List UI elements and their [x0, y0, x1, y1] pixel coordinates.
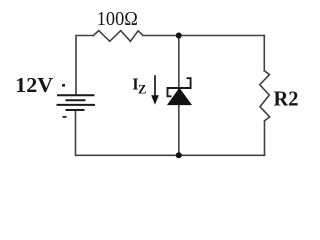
- battery minus mark: [63, 116, 67, 118]
- svg-text:12V: 12V: [15, 73, 54, 97]
- wire bottom: [76, 154, 265, 156]
- node junction dot bottom: [176, 152, 182, 158]
- wire right vertical bottom: [264, 121, 266, 156]
- wire battery bottom lead: [75, 110, 77, 155]
- wire middle branch vertical: [178, 36, 180, 156]
- svg-text:100Ω: 100Ω: [97, 8, 138, 30]
- wire right vertical top: [263, 36, 265, 71]
- resistor R2 zigzag: [260, 71, 270, 121]
- wire top-middle segment: [143, 35, 264, 37]
- zener diode D1 triangle: [168, 88, 192, 105]
- current Iz arrow: [154, 75, 156, 96]
- resistor R1 100ohm zigzag: [93, 31, 143, 42]
- svg-text:R2: R2: [274, 88, 299, 111]
- zener diode D1 cathode bar with hooks: [168, 78, 191, 96]
- svg-text:Z: Z: [138, 83, 146, 97]
- node junction dot top: [176, 33, 182, 39]
- battery V1 12V plates: [57, 95, 96, 110]
- battery plus mark: [62, 84, 65, 87]
- wire top-left segment: [76, 36, 93, 96]
